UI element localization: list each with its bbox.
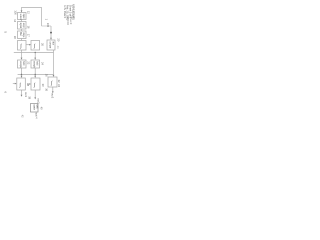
wire comparator feed vertical	[50, 26, 52, 39]
block box6	[47, 40, 55, 50]
svg-text:sample: sample	[19, 61, 21, 69]
block box2	[18, 22, 27, 30]
wire left input arrow to box M	[27, 83, 30, 85]
svg-text:sensor: sensor	[19, 14, 22, 21]
junction dot lower bus mid	[35, 74, 36, 75]
arrowhead box M output end	[34, 97, 36, 99]
wire top loop from block 1 to comparator input	[22, 8, 42, 27]
svg-text:100: 100	[13, 10, 17, 15]
wire box3-box4	[21, 39, 23, 41]
block box B	[31, 60, 40, 68]
arrowhead box R output end	[52, 91, 54, 93]
wire box1-box2	[21, 20, 23, 22]
block box A	[18, 60, 27, 68]
wire bus down to box A	[21, 53, 23, 59]
block box L integrator	[17, 78, 26, 90]
wire box B bottom to lower bus	[34, 68, 36, 77]
svg-text:ator: ator	[51, 41, 54, 45]
wire box M output	[34, 90, 36, 98]
arrowhead into box1 top	[21, 10, 23, 12]
wire left input arrow to box L	[13, 83, 16, 85]
svg-text:signal: signal	[19, 23, 21, 29]
dark dot on comparator feed line	[50, 32, 52, 34]
svg-text:B2 2003: B2 2003	[66, 17, 69, 26]
svg-text:out3: out3	[50, 93, 54, 99]
block box N	[31, 104, 39, 113]
arrowhead into box M left	[29, 83, 31, 85]
arrowhead into box L left	[15, 83, 17, 85]
small dark sheet marks on left margin	[4, 31, 8, 93]
block box M	[31, 78, 40, 90]
integrator glyphs	[18, 43, 53, 88]
arrowhead box L output end	[21, 95, 23, 97]
block box R	[48, 77, 57, 87]
svg-text:unit: unit	[35, 105, 39, 109]
block box5	[31, 41, 40, 51]
wire horizontal bus	[14, 52, 54, 54]
block box4 integrator	[18, 41, 27, 51]
wire into box R top	[53, 75, 55, 77]
arrowhead into box L top	[21, 76, 23, 78]
svg-text:Sheet 9: Sheet 9	[69, 17, 72, 25]
wire right vertical feed	[53, 53, 55, 75]
wire box A bottom to lower bus	[21, 68, 23, 77]
patent header text (rotated, top right)	[63, 4, 75, 25]
wire box L output	[21, 90, 23, 96]
wire box6 bottom to bus	[53, 50, 55, 53]
junction dot lower bus left	[21, 74, 22, 75]
label text box N	[33, 104, 40, 110]
reference numerals (tiny rotated)	[13, 10, 61, 104]
wire box2-box3	[21, 29, 23, 31]
arrowhead into box M top	[34, 76, 36, 78]
arrowhead into box5 left	[29, 44, 31, 46]
svg-text:compar: compar	[49, 41, 52, 48]
wire box R output	[52, 87, 54, 92]
arrowhead into box R top	[53, 75, 55, 77]
wire box4 bottom to bus	[21, 50, 23, 53]
arrowhead into box B	[34, 58, 36, 60]
arrowhead into box6	[50, 38, 52, 40]
svg-text:input: input	[22, 14, 25, 19]
wire box4-box5	[26, 44, 30, 46]
in-box tiny rotated label text	[19, 14, 54, 69]
svg-text:filter: filter	[19, 32, 22, 36]
svg-text:102: 102	[46, 23, 50, 28]
wire bus down to box B	[34, 53, 36, 59]
svg-text:stage: stage	[22, 32, 25, 38]
wire jog to comparator	[42, 25, 52, 27]
block box1	[18, 13, 27, 20]
svg-text:out1: out1	[24, 92, 28, 98]
arrowhead into box A	[21, 58, 23, 60]
svg-text:sample: sample	[33, 61, 35, 69]
svg-text:ampl: ampl	[22, 23, 24, 28]
block box3	[18, 31, 27, 39]
junction dot bus/boxB	[35, 52, 36, 53]
svg-text:out 4: out 4	[35, 113, 39, 119]
wire lower horizontal bus	[18, 74, 54, 76]
bottom block with label	[20, 104, 43, 120]
